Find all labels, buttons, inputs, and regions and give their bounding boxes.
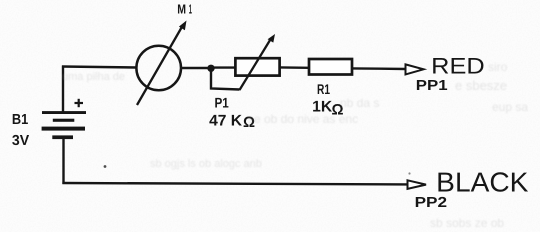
wire R1 to PP1 arrow: [352, 67, 406, 70]
svg-text:R1: R1: [317, 81, 330, 97]
battery B1 bar4 short: [52, 135, 73, 139]
svg-text:PP2: PP2: [415, 195, 448, 211]
svg-text:BLACK: BLACK: [436, 166, 529, 197]
terminal arrow PP2 (open): [408, 180, 427, 189]
meter M1 circle: [136, 46, 181, 91]
battery B1 bar1 long: [42, 111, 86, 114]
svg-text:B1: B1: [12, 112, 28, 128]
svg-text:PP1: PP1: [416, 78, 448, 94]
resistor R1 body: [309, 59, 352, 75]
wire potentiometer to resistor R1: [280, 66, 309, 69]
wire junction to potentiometer P1: [211, 66, 235, 68]
wire wiper return: vertical from junction: [211, 69, 240, 90]
svg-text:1: 1: [189, 2, 192, 17]
svg-text:47 K: 47 K: [209, 113, 243, 130]
wire bottom horizontal to PP2: [62, 183, 407, 184]
wire top horizontal from battery to meter: [62, 67, 137, 68]
svg-text:3V: 3V: [12, 133, 30, 149]
potentiometer P1 wiper arrow line: [240, 39, 272, 91]
battery B1 bar3 long: [42, 127, 85, 131]
meter M1 needle arrowhead: [179, 21, 187, 31]
battery plus sign: [75, 99, 84, 107]
svg-text:RED: RED: [431, 54, 485, 79]
wire left vertical battery top: [62, 66, 64, 113]
battery B1 bar2 short: [53, 119, 75, 122]
potentiometer P1 body: [235, 58, 279, 75]
potentiometer P1 wiper arrowhead: [268, 34, 275, 43]
wire meter to junction: [180, 67, 212, 69]
svg-text:P1: P1: [215, 95, 229, 111]
svg-text:M: M: [177, 2, 186, 17]
wire battery bottom vertical: [62, 138, 64, 184]
junction node dot: [207, 65, 214, 72]
meter M1 needle: [137, 25, 183, 105]
terminal arrow PP1 (open): [406, 64, 424, 74]
